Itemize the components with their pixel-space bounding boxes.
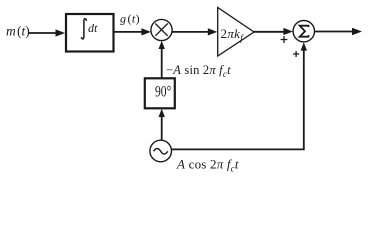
svg-text:m: m [6,24,16,39]
svg-text:g: g [120,12,126,26]
svg-text:A cos 2π fct: A cos 2π fct [176,157,239,174]
wire multiplier to amplifier [172,31,210,33]
integrator block ∫dt [66,14,114,52]
oscillator (carrier source) [150,140,172,162]
plus sign (lower input of summer) [293,53,299,55]
svg-text:90°: 90° [155,84,171,101]
wire summer output [315,31,355,33]
90 degree phase shifter box [145,78,175,108]
wire oscillator to 90-degree box [161,116,163,141]
plus sign (upper input of summer) [281,39,288,41]
wire m(t) to integrator [29,32,57,34]
wire oscillator to summer (bottom path) [172,49,304,150]
wire amplifier to summer [254,31,286,33]
svg-text:−A sin 2π fct: −A sin 2π fct [166,63,231,79]
svg-text:(t): (t) [128,12,141,26]
wire integrator to multiplier [114,31,144,33]
multiplier (product modulator) [151,19,172,40]
wire 90-degree box to multiplier [161,48,163,79]
summer &#931; [293,21,314,42]
amplifier 2&#960;k_f (gain triangle) [218,8,254,57]
svg-text:dt: dt [88,21,98,35]
svg-text:(t): (t) [17,24,30,39]
